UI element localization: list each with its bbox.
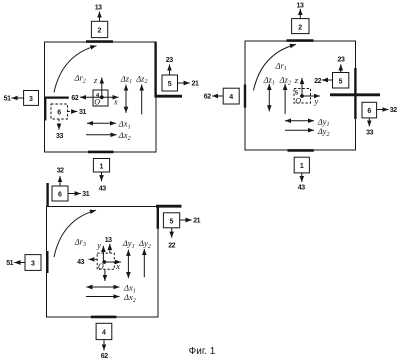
label dx1 (diagram 3) [123, 283, 136, 295]
label dz1 (diagram 2) [263, 74, 275, 86]
dx1 double arrow (diagram 3) [86, 286, 119, 288]
svg-text:5: 5 [168, 81, 172, 88]
left wall thick segment mid (diagram 3) [46, 251, 48, 273]
label 21 (diagram 1) [192, 81, 199, 88]
pin label 4 (diagram 1) [96, 93, 100, 99]
dashed box at origin (diagram 3) [97, 253, 114, 269]
svg-text:Δr2: Δr2 [74, 72, 86, 84]
svg-text:Δz1: Δz1 [120, 73, 132, 85]
label 31 (diagram 1) [79, 109, 86, 116]
left wall thick segment (diagram 1) [44, 98, 46, 121]
dashed box 6 (diagram 1) [51, 104, 68, 119]
label dx2 (diagram 1) [118, 130, 131, 142]
label dz2 (diagram 2) [279, 74, 291, 86]
dashed arrow box6 to 31 (diagram 1) [68, 111, 78, 113]
dz1 double arrow (diagram 1) [125, 85, 127, 113]
label 62 (diagram 2) [204, 94, 211, 101]
label dr2 (diagram 1) [74, 72, 86, 84]
right wall thick segment (diagram 2) [354, 68, 356, 119]
arrow box5 to 22 (diagram 3) [171, 228, 173, 238]
svg-text:Фиг. 1: Фиг. 1 [189, 346, 216, 357]
svg-text:51: 51 [4, 95, 11, 102]
y axis (diagram 2) [302, 95, 320, 97]
svg-text:5: 5 [170, 218, 174, 225]
dashed arrow origin box to 43 (diagram 3) [89, 258, 98, 260]
box 6 (diagram 3) [52, 186, 68, 201]
svg-text:33: 33 [366, 129, 373, 136]
label 23 (diagram 1) [166, 57, 173, 64]
svg-text:6: 6 [58, 192, 62, 199]
svg-text:13: 13 [95, 5, 102, 12]
box 4 at origin (diagram 1) [93, 90, 108, 106]
arrow box5 to 23 (diagram 1) [169, 65, 171, 76]
dz1 double arrow (diagram 2) [268, 84, 270, 112]
label dy1 (diagram 2) [317, 116, 330, 128]
top right shelf thick line (diagram 3) [156, 205, 182, 208]
arrow box6 to 32 (diagram 2) [377, 109, 389, 111]
down arrow from origin box (diagram 3) [104, 270, 106, 282]
box 1 (diagram 2) [294, 157, 309, 173]
svg-text:y: y [314, 96, 319, 106]
svg-text:43: 43 [77, 259, 84, 266]
label 21 (diagram 3) [193, 218, 200, 225]
svg-text:5: 5 [339, 78, 343, 85]
pin label 5 (diagram 2) [295, 91, 299, 97]
label 62 (diagram 3) [101, 353, 108, 359]
box 4 (diagram 3) [96, 323, 112, 339]
arrow box3 to 51 (diagram 1) [12, 97, 24, 99]
label 43 (diagram 3) [77, 259, 84, 266]
label 13 (diagram 2) [297, 2, 304, 9]
svg-text:13: 13 [297, 2, 304, 9]
svg-text:2: 2 [98, 28, 102, 35]
arrow origin box to 13 (diagram 3) [109, 244, 111, 253]
right wall thick segment (diagram 3) [157, 207, 159, 229]
label 62 (diagram 1) [71, 95, 78, 102]
svg-text:1: 1 [300, 163, 304, 170]
svg-text:43: 43 [298, 185, 305, 192]
box 5 (diagram 1) [162, 75, 178, 91]
label z (diagram 1) [93, 75, 98, 85]
dy1 double arrow (diagram 3) [127, 250, 129, 279]
left wall thick segment (diagram 2) [244, 85, 246, 108]
right wall thick segment (diagram 1) [154, 42, 156, 97]
caption Фиг. 1 [189, 346, 216, 357]
box 6 (diagram 2) [362, 102, 377, 118]
dz2 up arrow (diagram 1) [141, 85, 143, 115]
arrow box5 to 21 (diagram 1) [178, 82, 190, 84]
box 4 (diagram 2) [223, 88, 239, 104]
origin dot (diagram 3) [102, 260, 106, 264]
svg-text:43: 43 [99, 186, 106, 193]
svg-text:Δr1: Δr1 [275, 60, 287, 72]
bottom wall thick segment (diagram 3) [91, 316, 117, 319]
arrow box3 to 51 (diagram 3) [14, 262, 25, 264]
dy2 right arrow (diagram 2) [285, 129, 314, 131]
label 22 (diagram 2) [314, 78, 321, 85]
left shelf thick line (diagram 1) [45, 96, 69, 98]
label 51 (diagram 1) [4, 95, 11, 102]
svg-text:1: 1 [100, 163, 104, 170]
svg-text:Δr3: Δr3 [74, 236, 86, 248]
label y (diagram 3) [96, 240, 101, 250]
svg-text:2: 2 [298, 24, 302, 31]
label 33 (diagram 1) [56, 133, 63, 140]
label dy2 (diagram 2) [317, 126, 330, 138]
top wall thick segment (diagram 1) [86, 40, 113, 43]
origin dot (diagram 1) [100, 95, 104, 99]
box 5 (diagram 2) [333, 73, 349, 89]
svg-text:Δy1: Δy1 [122, 238, 135, 250]
bottom wall thick segment (diagram 2) [288, 149, 314, 152]
label y (diagram 2) [314, 96, 319, 106]
label 31 (diagram 3) [82, 191, 89, 198]
label dz2 (diagram 1) [135, 73, 147, 85]
label dy1 (diagram 3) [122, 238, 135, 250]
box 3 (diagram 1) [24, 91, 39, 106]
arrow box2 to 13 (diagram 2) [299, 9, 301, 19]
label dx2 (diagram 3) [123, 292, 136, 304]
curved arrow dr2 (diagram 1) [54, 46, 97, 93]
svg-text:3: 3 [29, 96, 33, 103]
box 2 (diagram 1) [91, 21, 107, 37]
svg-text:O: O [94, 98, 100, 107]
curved arrow dr3 (diagram 3) [54, 210, 96, 257]
label z (diagram 2) [294, 75, 299, 85]
arrow box5 to 23 (diagram 2) [340, 64, 342, 72]
dy2 up arrow (diagram 3) [143, 249, 145, 277]
svg-text:32: 32 [390, 107, 397, 114]
box 1 (diagram 1) [93, 159, 109, 173]
svg-text:x: x [113, 96, 118, 106]
arrow origin to 62 (diagram 1) [80, 96, 102, 98]
arrow box4 to 62 (diagram 3) [103, 340, 105, 351]
dx2 right arrow (diagram 1) [86, 134, 117, 136]
arrow box2 to 13 (diagram 1) [99, 12, 101, 22]
label 43 (diagram 2) [298, 185, 305, 192]
dashed box 5 at origin (diagram 2) [294, 89, 311, 104]
origin dot (diagram 2) [300, 94, 304, 98]
svg-text:51: 51 [6, 260, 13, 267]
curved arrow dr1 (diagram 2) [254, 44, 297, 90]
label 23 (diagram 2) [338, 57, 345, 64]
svg-text:31: 31 [82, 191, 89, 198]
label 33 (diagram 2) [366, 129, 373, 136]
label O (diagram 2) [295, 96, 301, 105]
y axis (diagram 3) [102, 246, 104, 262]
dx1 double arrow (diagram 1) [87, 122, 116, 124]
svg-text:6: 6 [57, 109, 61, 116]
svg-text:x: x [115, 261, 120, 271]
label x (diagram 1) [113, 96, 118, 106]
dy1 double arrow (diagram 2) [285, 120, 314, 122]
svg-text:Δz1: Δz1 [263, 74, 275, 86]
arrow box6 to 33 (diagram 2) [368, 118, 370, 127]
svg-text:z: z [93, 75, 98, 85]
label dr1 (diagram 2) [275, 60, 287, 72]
svg-text:6: 6 [367, 108, 371, 115]
label dz1 (diagram 1) [120, 73, 132, 85]
label O (diagram 1) [94, 98, 100, 107]
label dy2 (diagram 3) [138, 238, 151, 250]
z axis (diagram 2) [301, 78, 303, 96]
arrow box6 to 32 (diagram 3) [59, 176, 61, 186]
label dx1 (diagram 1) [118, 119, 131, 131]
left wall thick segment above corner (diagram 3) [46, 183, 48, 207]
x axis (diagram 1) [102, 96, 119, 98]
svg-text:32: 32 [57, 167, 64, 174]
svg-text:62: 62 [101, 353, 108, 359]
label x (diagram 3) [115, 261, 120, 271]
svg-text:Δx2: Δx2 [118, 130, 131, 142]
dz2 up arrow (diagram 2) [284, 84, 286, 114]
label O (diagram 3) [98, 262, 104, 271]
arrow box6 to 31 (diagram 3) [68, 193, 81, 195]
label 22 (diagram 3) [168, 243, 175, 250]
svg-text:Δz2: Δz2 [135, 73, 147, 85]
bottom wall thick segment (diagram 1) [88, 151, 114, 154]
svg-text:Δx1: Δx1 [118, 119, 131, 131]
label 13 (diagram 3) [105, 237, 112, 244]
chamber box (diagram 1) [45, 42, 157, 152]
chamber box (diagram 2) [245, 41, 356, 150]
svg-text:13: 13 [105, 237, 112, 244]
svg-text:O: O [98, 262, 104, 271]
svg-text:3: 3 [31, 261, 35, 268]
dashed arrow box6 to 33 (diagram 1) [58, 119, 60, 130]
arrow box1 to 43 (diagram 1) [101, 172, 103, 181]
svg-text:4: 4 [102, 330, 106, 337]
label dr3 (diagram 3) [74, 236, 86, 248]
svg-text:z: z [294, 75, 299, 85]
right shelf thick line (diagram 2) [330, 93, 380, 96]
x axis (diagram 3) [104, 261, 121, 263]
svg-text:22: 22 [168, 243, 175, 250]
label 13 (diagram 1) [95, 5, 102, 12]
dx2 right arrow (diagram 3) [86, 296, 120, 298]
svg-text:23: 23 [166, 57, 173, 64]
box 2 (diagram 2) [292, 19, 309, 34]
svg-text:O: O [295, 96, 301, 105]
chamber box (diagram 3) [47, 207, 159, 318]
top wall thick segment (diagram 2) [287, 39, 314, 42]
arrow box5 to 21 (diagram 3) [180, 219, 192, 221]
svg-text:21: 21 [192, 81, 199, 88]
svg-text:62: 62 [71, 95, 78, 102]
right shelf thick line (diagram 1) [155, 95, 183, 98]
z axis (diagram 1) [101, 78, 103, 98]
label 32 (diagram 3) [57, 167, 64, 174]
svg-text:62: 62 [204, 94, 211, 101]
svg-text:Δy2: Δy2 [138, 238, 151, 250]
svg-text:31: 31 [79, 109, 86, 116]
arrow box5 to 22 (diagram 2) [322, 79, 333, 81]
svg-text:22: 22 [314, 78, 321, 85]
label 51 (diagram 3) [6, 260, 13, 267]
svg-text:33: 33 [56, 133, 63, 140]
label 32 (diagram 2) [390, 107, 397, 114]
svg-text:y: y [96, 240, 101, 250]
svg-text:21: 21 [193, 218, 200, 225]
svg-text:23: 23 [338, 57, 345, 64]
svg-text:4: 4 [229, 94, 233, 101]
arrow box1 to 43 (diagram 2) [301, 173, 303, 182]
arrow box4 to 62 (diagram 2) [212, 95, 223, 97]
label 43 (diagram 1) [99, 186, 106, 193]
box 5 (diagram 3) [163, 213, 179, 228]
box 3 (diagram 3) [25, 255, 41, 271]
